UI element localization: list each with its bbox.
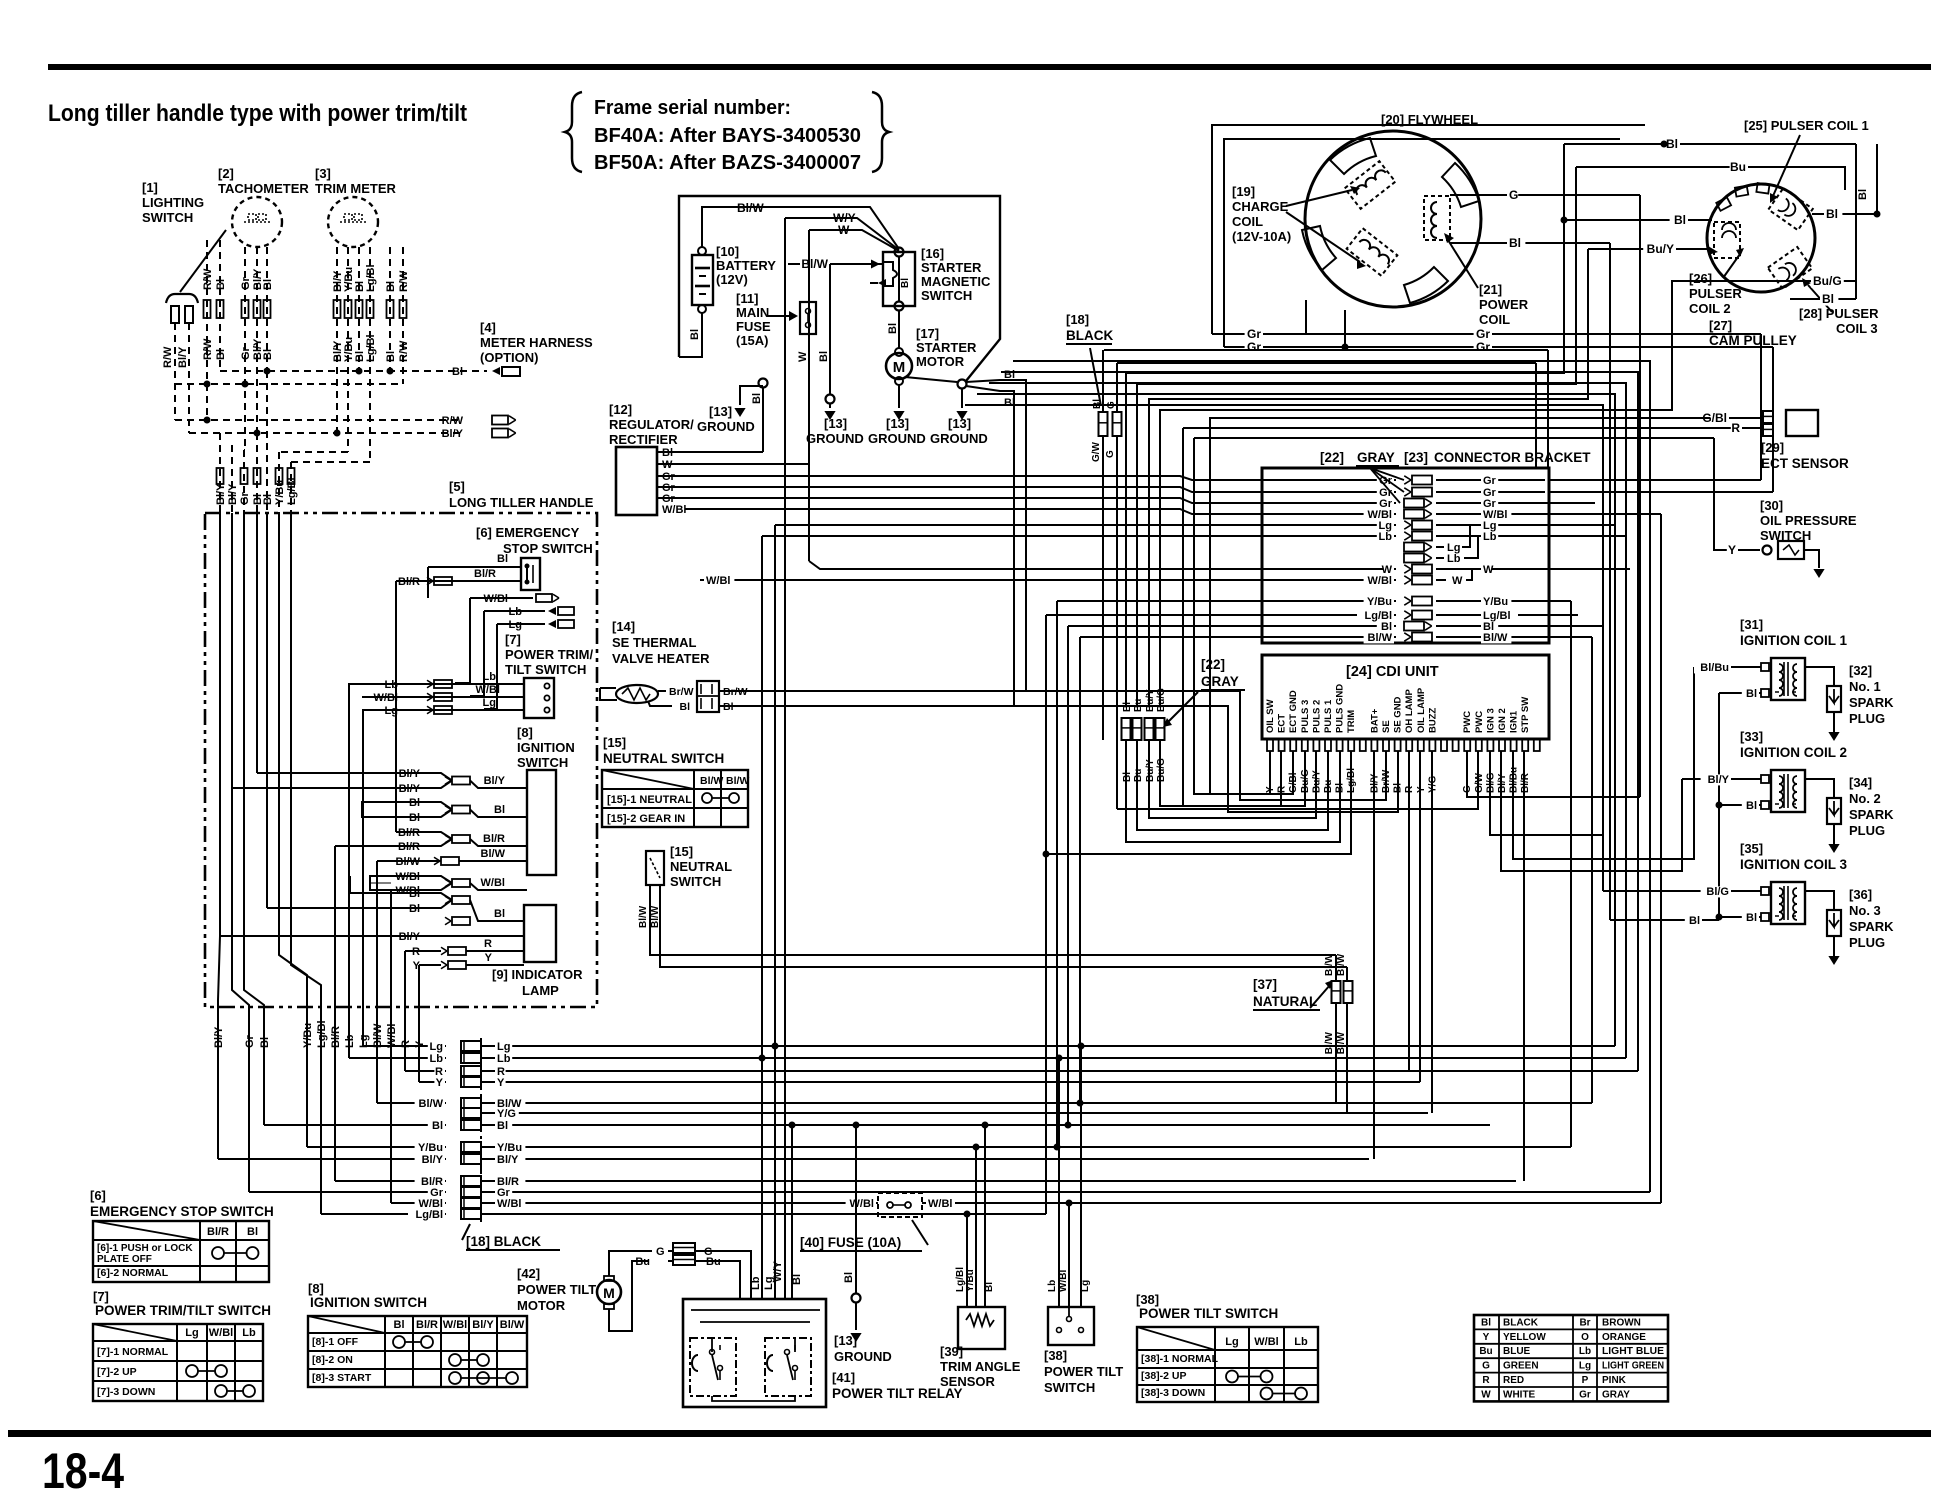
svg-text:G: G bbox=[1509, 188, 1518, 202]
svg-text:Bl: Bl bbox=[1822, 292, 1834, 306]
indicator lamp wires bbox=[220, 876, 524, 972]
svg-text:Bl: Bl bbox=[1746, 800, 1757, 812]
svg-text:Bl/Y: Bl/Y bbox=[484, 775, 506, 787]
svg-text:Bl/W: Bl/W bbox=[726, 775, 749, 787]
svg-text:IGN 2: IGN 2 bbox=[1497, 708, 1508, 733]
svg-text:[2]: [2] bbox=[218, 166, 234, 181]
svg-text:GROUND: GROUND bbox=[806, 431, 864, 446]
svg-text:[8]: [8] bbox=[517, 725, 533, 740]
svg-text:Bl: Bl bbox=[984, 1282, 995, 1292]
regulator/rectifier [12] bbox=[609, 402, 694, 515]
svg-text:[24] CDI UNIT: [24] CDI UNIT bbox=[1346, 664, 1439, 680]
flywheel outer loop wires bbox=[1212, 125, 1645, 347]
CDI pin wires routing bbox=[1046, 144, 1800, 1214]
svg-text:[38]: [38] bbox=[1044, 1348, 1067, 1363]
svg-text:Bu/Y: Bu/Y bbox=[1145, 689, 1156, 712]
svg-text:No. 1: No. 1 bbox=[1849, 679, 1881, 694]
svg-text:BF50A: After BAZS-3400007: BF50A: After BAZS-3400007 bbox=[594, 151, 861, 174]
svg-text:Bl: Bl bbox=[1674, 213, 1686, 227]
svg-text:Lg: Lg bbox=[497, 1041, 510, 1053]
svg-text:Lg: Lg bbox=[509, 619, 522, 631]
connector bracket [23] box bbox=[1262, 450, 1591, 643]
svg-text:PLUG: PLUG bbox=[1849, 711, 1885, 726]
svg-text:Gr: Gr bbox=[240, 346, 252, 360]
wires descending to long tiller handle bbox=[215, 371, 370, 513]
svg-text:[33]: [33] bbox=[1740, 729, 1763, 744]
svg-text:[8]: [8] bbox=[308, 1281, 324, 1296]
svg-text:P: P bbox=[1582, 1375, 1589, 1386]
wire W bbox=[797, 223, 899, 561]
svg-text:Bl/R: Bl/R bbox=[1520, 772, 1531, 793]
svg-text:MOTOR: MOTOR bbox=[517, 1298, 566, 1313]
wire Lg bracket to relay bbox=[763, 525, 1266, 1299]
svg-text:POWER TRIM/: POWER TRIM/ bbox=[505, 647, 593, 662]
svg-text:[6]: [6] bbox=[90, 1188, 106, 1203]
svg-text:G: G bbox=[1105, 450, 1116, 458]
svg-text:Bu: Bu bbox=[1479, 1346, 1492, 1357]
wire Bl emergency stop bbox=[428, 553, 521, 598]
svg-text:W/Bl: W/Bl bbox=[928, 1198, 952, 1210]
svg-text:[27]: [27] bbox=[1709, 318, 1732, 333]
svg-text:[15]-2 GEAR IN: [15]-2 GEAR IN bbox=[607, 813, 685, 825]
connector [18] BLACK column bbox=[461, 1038, 560, 1250]
svg-text:NEUTRAL: NEUTRAL bbox=[670, 859, 732, 874]
svg-text:SWITCH: SWITCH bbox=[1044, 1380, 1095, 1395]
svg-text:[9] INDICATOR: [9] INDICATOR bbox=[492, 967, 583, 982]
svg-text:COIL 3: COIL 3 bbox=[1836, 321, 1878, 336]
svg-text:Gr: Gr bbox=[1476, 327, 1490, 341]
power coil [21] (inside flywheel) bbox=[1424, 196, 1450, 240]
svg-text:Y/Bu: Y/Bu bbox=[418, 1142, 443, 1154]
svg-text:PULS 1: PULS 1 bbox=[1323, 699, 1334, 733]
svg-text:R: R bbox=[1482, 1375, 1490, 1386]
svg-text:Bl: Bl bbox=[1122, 772, 1133, 782]
svg-text:PULS 3: PULS 3 bbox=[1300, 700, 1311, 733]
svg-text:[22]: [22] bbox=[1201, 657, 1225, 672]
svg-text:Lg: Lg bbox=[1080, 1280, 1091, 1292]
svg-text:W: W bbox=[838, 223, 850, 237]
svg-text:Bl/Y: Bl/Y bbox=[227, 483, 239, 505]
ignition switch wires bbox=[232, 768, 527, 897]
svg-text:[7]: [7] bbox=[93, 1289, 109, 1304]
wire G/Bl to ECT bbox=[1296, 417, 1710, 419]
wire Bl/G link coil3 bbox=[1603, 890, 1731, 892]
svg-text:BF40A: After BAYS-3400530: BF40A: After BAYS-3400530 bbox=[594, 124, 861, 147]
SE thermal valve heater [14] bbox=[600, 619, 750, 713]
svg-text:Bl/W: Bl/W bbox=[1368, 632, 1393, 644]
svg-text:BUZZ: BUZZ bbox=[1427, 707, 1438, 733]
svg-text:[17]: [17] bbox=[916, 326, 939, 341]
svg-text:Bl/W: Bl/W bbox=[638, 905, 649, 928]
svg-text:SE: SE bbox=[1381, 720, 1392, 733]
regulator output wires Bl W Gr Gr Gr W/Bl bbox=[657, 447, 1266, 516]
charge coil bottom (inside flywheel) bbox=[1347, 228, 1398, 276]
svg-text:Lg: Lg bbox=[1579, 1361, 1591, 1372]
svg-text:[18]: [18] bbox=[1066, 312, 1089, 327]
svg-text:CONNECTOR BRACKET: CONNECTOR BRACKET bbox=[1434, 450, 1591, 465]
svg-text:W/Bl: W/Bl bbox=[374, 692, 398, 704]
svg-text:Bl: Bl bbox=[680, 701, 691, 713]
svg-text:[7]-3 DOWN: [7]-3 DOWN bbox=[97, 1386, 155, 1398]
svg-text:[42]: [42] bbox=[517, 1266, 540, 1281]
spark plug No.1 [32] bbox=[1805, 663, 1894, 741]
svg-text:Bl: Bl bbox=[1746, 688, 1757, 700]
svg-text:Bl/R: Bl/R bbox=[398, 576, 420, 588]
connector [18] BLACK upper bbox=[1066, 312, 1122, 809]
svg-text:Bl: Bl bbox=[494, 804, 505, 816]
svg-text:Gr: Gr bbox=[239, 491, 251, 505]
svg-text:Lb: Lb bbox=[1483, 531, 1497, 543]
svg-text:[38]-3 DOWN: [38]-3 DOWN bbox=[1141, 1387, 1205, 1399]
svg-text:[8]-1 OFF: [8]-1 OFF bbox=[312, 1336, 359, 1348]
svg-text:Lg/Bl: Lg/Bl bbox=[316, 1021, 328, 1049]
svg-text:[38]-2 UP: [38]-2 UP bbox=[1141, 1370, 1187, 1382]
wire Gr flywheel 1 bbox=[1212, 300, 1761, 480]
svg-text:Bu/G: Bu/G bbox=[1813, 274, 1842, 288]
frame serial number note bbox=[565, 92, 889, 174]
power trim/tilt switch [7] bbox=[505, 632, 593, 718]
svg-text:G: G bbox=[1482, 1361, 1490, 1372]
svg-text:R: R bbox=[484, 938, 492, 950]
starter magnetic switch [16] bbox=[870, 246, 991, 311]
svg-text:Long tiller handle type with p: Long tiller handle type with power trim/… bbox=[48, 100, 467, 127]
svg-text:Y: Y bbox=[485, 952, 493, 964]
svg-text:W/Bl: W/Bl bbox=[484, 593, 508, 605]
svg-text:SWITCH: SWITCH bbox=[921, 288, 972, 303]
wire R to ECT bbox=[1183, 427, 1715, 429]
svg-text:[19]: [19] bbox=[1232, 184, 1255, 199]
wire Gr flywheel 2 bbox=[1224, 310, 1773, 492]
svg-text:[14]: [14] bbox=[612, 619, 635, 634]
svg-text:Bl: Bl bbox=[1666, 137, 1678, 151]
svg-text:[32]: [32] bbox=[1849, 663, 1872, 678]
CDI pin wire labels bbox=[1265, 767, 1531, 793]
svg-text:Bl: Bl bbox=[818, 351, 830, 362]
svg-text:O: O bbox=[1581, 1332, 1589, 1343]
svg-text:[39]: [39] bbox=[940, 1344, 963, 1359]
tiller handle internal harness wires bbox=[218, 513, 419, 1214]
svg-text:[21]: [21] bbox=[1479, 282, 1502, 297]
svg-text:Bl/W: Bl/W bbox=[737, 201, 764, 215]
svg-text:PINK: PINK bbox=[1602, 1375, 1627, 1386]
svg-text:PULSER: PULSER bbox=[1689, 286, 1742, 301]
svg-text:Lg/Bl: Lg/Bl bbox=[365, 265, 377, 293]
pulser coil 1 [25] bbox=[1744, 118, 1869, 230]
wires Lb W/Bl Lg tilt switch bbox=[1047, 1043, 1091, 1308]
svg-text:Gr: Gr bbox=[244, 1034, 256, 1048]
svg-text:Lg: Lg bbox=[430, 1041, 443, 1053]
engine boundary around starter circuit bbox=[679, 196, 1000, 381]
svg-text:Bl/W: Bl/W bbox=[1483, 632, 1508, 644]
svg-text:Y/Bu: Y/Bu bbox=[965, 1269, 976, 1292]
svg-text:PLUG: PLUG bbox=[1849, 935, 1885, 950]
svg-text:POWER TRIM/TILT SWITCH: POWER TRIM/TILT SWITCH bbox=[95, 1303, 271, 1318]
svg-text:Bu/Y: Bu/Y bbox=[1145, 759, 1156, 782]
svg-text:RED: RED bbox=[1503, 1375, 1524, 1386]
ignition switch [8] table bbox=[308, 1281, 527, 1387]
svg-text:GRAY: GRAY bbox=[1602, 1389, 1630, 1400]
power tilt relay [41] bbox=[683, 1299, 963, 1407]
svg-text:SE GND: SE GND bbox=[1393, 696, 1404, 733]
meter harness [4] label bbox=[480, 320, 593, 365]
svg-text:W/Bl: W/Bl bbox=[850, 1198, 874, 1210]
wires tiller to black connector bbox=[218, 1046, 446, 1214]
svg-text:PLATE OFF: PLATE OFF bbox=[97, 1254, 152, 1265]
svg-text:Bl/W: Bl/W bbox=[500, 1319, 525, 1331]
svg-text:W/Bl: W/Bl bbox=[386, 1024, 398, 1048]
svg-text:PWC: PWC bbox=[1462, 711, 1473, 733]
spark plug No.3 [36] bbox=[1805, 887, 1894, 965]
svg-text:PWC: PWC bbox=[1474, 711, 1485, 733]
svg-text:POWER TILT: POWER TILT bbox=[517, 1282, 596, 1297]
svg-text:[18] BLACK: [18] BLACK bbox=[466, 1234, 541, 1249]
svg-text:Bl: Bl bbox=[751, 393, 763, 404]
svg-text:RECTIFIER: RECTIFIER bbox=[609, 432, 678, 447]
wire Bl/Y from lighting switch bbox=[188, 323, 190, 433]
svg-text:STARTER: STARTER bbox=[921, 260, 982, 275]
svg-text:Lg: Lg bbox=[483, 697, 496, 709]
svg-text:Gr: Gr bbox=[1247, 340, 1261, 354]
svg-text:W: W bbox=[1481, 1389, 1491, 1400]
svg-text:Bl/Y: Bl/Y bbox=[213, 1026, 225, 1048]
wire W/Bl row bbox=[700, 579, 1266, 581]
svg-text:Bl: Bl bbox=[1004, 369, 1015, 381]
svg-text:R: R bbox=[1277, 785, 1288, 793]
svg-text:Y/G: Y/G bbox=[497, 1108, 516, 1120]
svg-text:R/W: R/W bbox=[202, 268, 214, 290]
svg-text:[8]-2 ON: [8]-2 ON bbox=[312, 1354, 353, 1366]
lighting switch SW1 [1] bbox=[142, 180, 226, 368]
wire R/W from lighting switch bbox=[174, 323, 176, 420]
svg-text:W/Bl: W/Bl bbox=[443, 1319, 467, 1331]
wire Bl battery negative bbox=[679, 313, 702, 357]
svg-text:Lg/Bl: Lg/Bl bbox=[416, 1209, 444, 1221]
svg-text:Y: Y bbox=[497, 1077, 505, 1089]
svg-text:Y: Y bbox=[1728, 543, 1736, 557]
svg-text:Lb: Lb bbox=[1579, 1346, 1591, 1357]
svg-text:COIL: COIL bbox=[1479, 312, 1510, 327]
svg-text:Bl/W: Bl/W bbox=[1324, 1031, 1335, 1054]
wire Lb trim/tilt bbox=[349, 671, 524, 691]
svg-text:NATURAL: NATURAL bbox=[1253, 994, 1317, 1009]
svg-text:Bl: Bl bbox=[215, 349, 227, 360]
svg-text:[7]: [7] bbox=[505, 632, 521, 647]
svg-text:[34]: [34] bbox=[1849, 775, 1872, 790]
svg-text:CHARGE: CHARGE bbox=[1232, 199, 1289, 214]
svg-text:OIL LAMP: OIL LAMP bbox=[1416, 687, 1427, 733]
svg-text:MAIN: MAIN bbox=[736, 305, 769, 320]
svg-text:R/W: R/W bbox=[398, 340, 410, 362]
svg-text:Lb: Lb bbox=[483, 671, 497, 683]
wire Bl heater bbox=[719, 706, 1398, 812]
connector [37] NATURAL bbox=[1253, 953, 1353, 1113]
svg-text:G/W: G/W bbox=[1474, 772, 1485, 793]
wire Lg trim/tilt bbox=[363, 697, 524, 717]
wires Lb Lg W/Y Bl into relay bbox=[789, 1122, 804, 1300]
svg-text:Bl: Bl bbox=[262, 279, 274, 290]
svg-text:[7]-2 UP: [7]-2 UP bbox=[97, 1366, 137, 1378]
ignition coil 3 [35] bbox=[1740, 841, 1848, 924]
grounds [13] x3 bbox=[806, 416, 988, 446]
svg-text:18-4: 18-4 bbox=[42, 1443, 124, 1499]
wire Lg/Bl bracket to column bbox=[1043, 615, 1267, 858]
svg-text:Bl: Bl bbox=[1092, 399, 1103, 409]
svg-text:LIGHT GREEN: LIGHT GREEN bbox=[1602, 1361, 1664, 1372]
svg-text:[12]: [12] bbox=[609, 402, 632, 417]
svg-text:[10]: [10] bbox=[716, 244, 739, 259]
svg-text:R/W: R/W bbox=[398, 270, 410, 292]
svg-text:IGNITION COIL 1: IGNITION COIL 1 bbox=[1740, 633, 1848, 648]
wire W/Bl trim/tilt bbox=[362, 684, 524, 704]
svg-text:OH LAMP: OH LAMP bbox=[1404, 689, 1415, 733]
svg-text:Bl/R: Bl/R bbox=[416, 1319, 438, 1331]
svg-text:MAGNETIC: MAGNETIC bbox=[921, 274, 991, 289]
svg-text:Gr: Gr bbox=[1476, 340, 1490, 354]
svg-text:W: W bbox=[1483, 564, 1494, 576]
connector [22] GRAY bbox=[1122, 657, 1246, 782]
bottom border rule bbox=[8, 1430, 1931, 1437]
flywheel [20] bbox=[1302, 112, 1481, 307]
svg-text:METER HARNESS: METER HARNESS bbox=[480, 335, 593, 350]
svg-text:FUSE: FUSE bbox=[736, 319, 771, 334]
svg-text:GRAY: GRAY bbox=[1357, 450, 1395, 465]
svg-text:[1]: [1] bbox=[142, 180, 158, 195]
wire Bl/Y bus to harness bbox=[189, 428, 516, 440]
svg-text:[13]: [13] bbox=[834, 1333, 857, 1348]
svg-text:Bl/W: Bl/W bbox=[481, 848, 506, 860]
svg-text:Bl/Y: Bl/Y bbox=[472, 1319, 494, 1331]
svg-text:YELLOW: YELLOW bbox=[1503, 1332, 1546, 1343]
svg-text:BROWN: BROWN bbox=[1602, 1317, 1641, 1328]
svg-text:Y/Bu: Y/Bu bbox=[1483, 596, 1508, 608]
svg-text:PULS 2: PULS 2 bbox=[1311, 700, 1322, 733]
svg-text:G/W: G/W bbox=[1091, 441, 1102, 462]
svg-text:[13]: [13] bbox=[709, 404, 732, 419]
svg-text:Bl/W: Bl/W bbox=[372, 1023, 384, 1048]
svg-text:Gr: Gr bbox=[1579, 1389, 1591, 1400]
svg-text:Bl: Bl bbox=[215, 279, 227, 290]
svg-text:IGN 3: IGN 3 bbox=[1485, 708, 1496, 733]
svg-text:Bl/Y: Bl/Y bbox=[442, 428, 464, 440]
svg-text:[6] EMERGENCY: [6] EMERGENCY bbox=[476, 525, 580, 540]
wire G power coil bbox=[1450, 188, 1640, 797]
svg-text:Bl/W: Bl/W bbox=[801, 257, 828, 271]
wire Bl/R emergency stop bbox=[396, 568, 521, 832]
svg-text:[16]: [16] bbox=[921, 246, 944, 261]
ignition switch [8] bbox=[517, 725, 575, 875]
wire R/W bus to harness bbox=[175, 415, 516, 427]
battery [10] bbox=[692, 244, 776, 313]
wires Bl/W neutral switch bbox=[650, 885, 1347, 967]
svg-text:Lg: Lg bbox=[1225, 1336, 1238, 1348]
svg-text:R: R bbox=[1731, 421, 1740, 435]
wire Bl/W battery to starter switch bbox=[702, 201, 899, 249]
svg-text:Lb: Lb bbox=[1047, 1280, 1058, 1292]
svg-text:SENSOR: SENSOR bbox=[940, 1374, 996, 1389]
ground [13] regulator bbox=[697, 379, 768, 453]
svg-text:W/Bl: W/Bl bbox=[1254, 1336, 1278, 1348]
CDI unit [24] box bbox=[1262, 655, 1549, 739]
neutral switch [15] table bbox=[602, 735, 749, 827]
svg-text:Bl: Bl bbox=[262, 349, 274, 360]
svg-text:Bl/R: Bl/R bbox=[474, 568, 496, 580]
svg-text:GRAY: GRAY bbox=[1201, 674, 1239, 689]
neutral switch [15] symbol bbox=[638, 844, 732, 928]
svg-text:Bl/R: Bl/R bbox=[483, 833, 505, 845]
svg-text:R/W: R/W bbox=[202, 338, 214, 360]
svg-text:Bu: Bu bbox=[1730, 160, 1746, 174]
svg-text:TILT SWITCH: TILT SWITCH bbox=[505, 662, 586, 677]
wire Br/W heater to CDI bbox=[719, 691, 1386, 800]
svg-text:[13]: [13] bbox=[948, 416, 971, 431]
connector bracket rows bbox=[1266, 468, 1545, 644]
wire Bl/Bu link bbox=[1694, 666, 1731, 668]
svg-text:[22]: [22] bbox=[1320, 450, 1344, 465]
svg-text:LIGHT BLUE: LIGHT BLUE bbox=[1602, 1346, 1664, 1357]
svg-text:[41]: [41] bbox=[832, 1370, 855, 1385]
wire W/Y bbox=[772, 211, 899, 1299]
wire Bl pulser 3 bbox=[1790, 292, 1856, 306]
svg-text:Bl/R: Bl/R bbox=[330, 1026, 342, 1048]
svg-text:[7]-1 NORMAL: [7]-1 NORMAL bbox=[97, 1346, 169, 1358]
indicator lamp [9] bbox=[492, 905, 583, 998]
svg-text:Bl: Bl bbox=[452, 366, 463, 378]
wire Bu pulser 1 bbox=[1576, 160, 1845, 190]
svg-text:W/Bl: W/Bl bbox=[476, 684, 500, 696]
wire Bl power coil bbox=[1450, 236, 1610, 920]
svg-text:[30]: [30] bbox=[1760, 498, 1783, 513]
ECT sensor [29] bbox=[1696, 410, 1849, 471]
svg-text:SPARK: SPARK bbox=[1849, 807, 1894, 822]
svg-text:W/Bl: W/Bl bbox=[662, 504, 686, 516]
svg-text:REGULATOR/: REGULATOR/ bbox=[609, 417, 694, 432]
svg-text:W/Bl: W/Bl bbox=[1058, 1270, 1069, 1292]
wire Bl/G to coil 3 bbox=[1731, 890, 1761, 892]
svg-text:[36]: [36] bbox=[1849, 887, 1872, 902]
svg-text:Lb: Lb bbox=[497, 1053, 511, 1065]
svg-text:[8]-3 START: [8]-3 START bbox=[312, 1372, 372, 1384]
svg-text:Bl/Y: Bl/Y bbox=[1497, 773, 1508, 793]
svg-text:SPARK: SPARK bbox=[1849, 919, 1894, 934]
svg-text:Bl/W: Bl/W bbox=[1324, 953, 1335, 976]
svg-text:[35]: [35] bbox=[1740, 841, 1763, 856]
svg-text:Frame serial number:: Frame serial number: bbox=[594, 96, 791, 119]
trim angle sensor [39] bbox=[940, 1307, 1021, 1389]
svg-text:POWER TILT SWITCH: POWER TILT SWITCH bbox=[1139, 1306, 1278, 1321]
svg-text:TRIM ANGLE: TRIM ANGLE bbox=[940, 1359, 1021, 1374]
svg-text:W/Bl: W/Bl bbox=[209, 1327, 233, 1339]
wires Lg/Bl Y/Bu Bl to trim sensor bbox=[955, 1122, 995, 1308]
bracket right wires bbox=[1545, 480, 1773, 1203]
svg-text:Lb: Lb bbox=[509, 606, 523, 618]
svg-text:W/Bl: W/Bl bbox=[497, 1198, 521, 1210]
svg-text:BLACK: BLACK bbox=[1066, 328, 1113, 343]
svg-text:GROUND: GROUND bbox=[868, 431, 926, 446]
svg-text:PLUG: PLUG bbox=[1849, 823, 1885, 838]
top border rule bbox=[48, 64, 1931, 70]
svg-text:Lb: Lb bbox=[344, 1034, 356, 1048]
wires G Bu tilt motor bbox=[609, 1243, 751, 1331]
svg-text:Lb: Lb bbox=[430, 1053, 444, 1065]
svg-text:Gr: Gr bbox=[1247, 327, 1261, 341]
svg-text:GROUND: GROUND bbox=[930, 431, 988, 446]
svg-text:COIL 2: COIL 2 bbox=[1689, 301, 1731, 316]
svg-text:Lb: Lb bbox=[1379, 531, 1393, 543]
svg-text:LIGHTING: LIGHTING bbox=[142, 195, 204, 210]
trim meter wires Bl/Y Y/Bu Bl Lg/Bl Bl R/W bbox=[332, 247, 410, 462]
svg-text:Y: Y bbox=[436, 1077, 444, 1089]
wires W/Bl Lb Lg stub connectors bbox=[455, 593, 574, 709]
